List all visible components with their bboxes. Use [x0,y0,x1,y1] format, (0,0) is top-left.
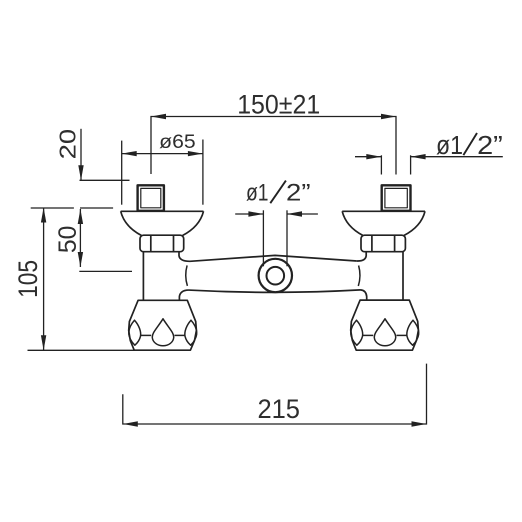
svg-text:ø1: ø1 [436,132,463,160]
svg-text:2”: 2” [477,132,503,160]
dim 150±21 right arrow [381,114,396,119]
left hex nut facet line a [150,235,152,251]
left hex nut facet line b [173,235,175,251]
left knob connector line a [141,334,151,336]
dim ø1/2 center right arrow line [287,213,318,215]
right arm neck curve [358,266,360,287]
dim ø1/2 top-right right extension [410,155,412,174]
dim 105 up arrow [41,208,46,223]
dim 215 left arrow [123,421,138,426]
right knob left facet [351,320,363,345]
dim 50 up arrow [78,209,83,224]
dim ø1/2 center right extension [286,210,288,266]
dim ø1/2 top-right right arrow line [411,156,503,158]
right hex nut [361,235,405,252]
svg-text:150±21: 150±21 [237,89,320,119]
right escutcheon bell top [342,210,425,212]
dim 50 line [79,209,81,267]
svg-text:2”: 2” [286,179,311,206]
dim ø65 left arrow [122,151,137,156]
right valve tube right edge [402,252,404,300]
right knob right facet [407,320,419,345]
left wall union square inner [141,188,161,207]
svg-text:ø1: ø1 [246,179,269,206]
dim 50 bottom reference line [79,270,132,272]
left knob connector line b [175,334,185,336]
right valve tube left edge with arm top fillet [357,252,366,261]
left escutcheon bell left curve [121,211,142,235]
dim 215 right arrow [412,421,427,426]
dim 150±21 line [151,117,396,175]
left arm neck curve [186,265,188,286]
dim 105 down arrow [41,335,46,350]
svg-text:50: 50 [55,226,82,254]
left valve tube left edge [142,252,144,300]
body arm bottom edge [189,290,361,292]
dim 20 reference line [80,179,130,181]
left wall union square outer [138,185,164,211]
dim 105 line [43,208,45,351]
left knob right facet [185,320,197,345]
right hex nut facet line b [394,235,396,251]
left hex nut [140,235,184,252]
svg-text:ø65: ø65 [159,131,196,153]
right escutcheon bell left curve [342,211,363,235]
dim 50 top reference line a [31,207,74,209]
body arm top edge [190,255,357,261]
right wall union square outer [382,185,411,211]
ground reference line [28,349,136,351]
dim ø1/2 center right arrow [287,211,302,216]
dim 50 top reference line b [80,207,113,209]
dim 150±21 left arrow [151,114,166,119]
dim ø1/2 top-right right arrow [411,154,426,159]
left valve tube right edge with arm bottom fillet [179,290,188,300]
dim ø1/2 center left arrow line [235,213,263,215]
svg-text:215: 215 [257,394,300,424]
right escutcheon bell right curve [404,211,425,235]
right hex nut facet line a [371,235,373,251]
right knob connector line b [397,334,407,336]
left knob center drop facet [152,319,173,346]
dim 215 line [123,364,427,424]
dim ø65 right extension [202,140,204,205]
dim ø65 left extension [121,141,123,205]
svg-text:20: 20 [55,129,81,160]
dim 50 down arrow [78,252,83,267]
left escutcheon bell top [121,210,204,212]
left escutcheon bell right curve [183,211,204,235]
left knob outline [129,300,197,350]
dim ø1/2 top-right left arrow line [355,156,381,158]
dim ø1/2 center left extension [262,210,264,266]
dim ø65 right arrow [188,151,203,156]
dim ø65 line [122,153,203,155]
right knob connector line a [363,334,373,336]
left valve tube right edge with arm top fillet [179,252,190,262]
central outlet boss outer circle [259,259,292,292]
right knob center drop facet [374,319,395,346]
right valve tube left edge with arm bottom fillet [361,290,367,300]
left knob left facet [129,320,141,345]
dim 20 down arrow [78,165,83,180]
right knob outline [351,300,419,350]
dim ø1/2 center left arrow [248,211,263,216]
dim ø1/2 top-right left extension [380,155,382,174]
central outlet boss inner circle [267,267,285,285]
dim ø1/2 top-right left arrow [366,154,381,159]
svg-text:105: 105 [13,260,43,298]
dim 20 line [80,129,82,181]
right wall union square inner [385,188,407,207]
